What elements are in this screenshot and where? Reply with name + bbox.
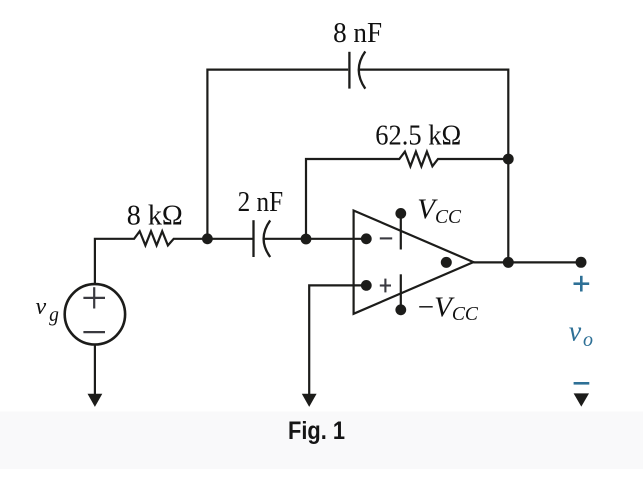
svg-text:8 kΩ: 8 kΩ <box>127 200 183 232</box>
svg-text:Fig. 1: Fig. 1 <box>288 417 345 445</box>
svg-text:8 nF: 8 nF <box>333 17 382 49</box>
svg-text:2 nF: 2 nF <box>238 186 284 218</box>
svg-text:62.5 kΩ: 62.5 kΩ <box>375 119 461 151</box>
